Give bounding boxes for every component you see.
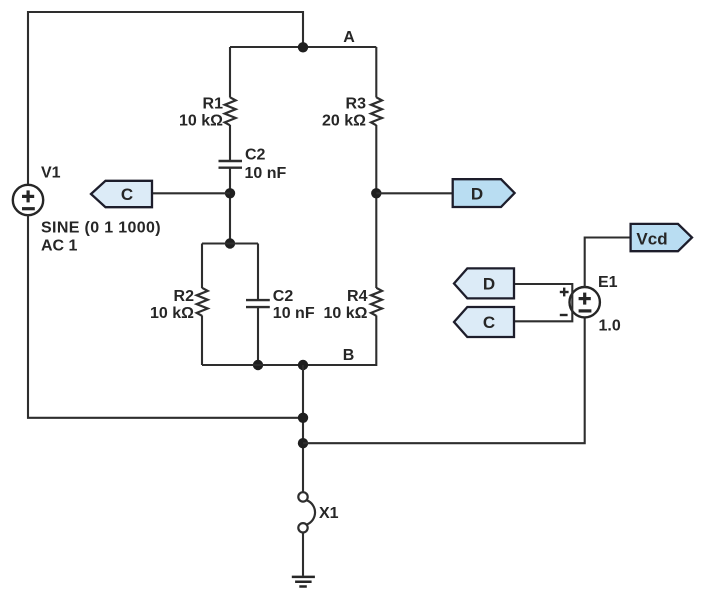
label V1 [41,165,61,182]
label R3 [346,96,367,113]
label E1 value 1.0 [599,318,621,335]
junction node C [225,188,235,198]
label E1 [598,274,618,291]
svg-text:C2: C2 [245,147,266,164]
svg-text:B: B [343,347,355,364]
wire C2 to node C and down [229,168,231,244]
wire switch to ground [302,533,304,576]
label R4 value 10 kOhm [324,305,368,322]
capacitor C2 (parallel) [246,300,270,307]
resistor R2 [197,288,208,316]
dependent source E1 [570,287,600,317]
svg-text:E1: E1 [598,274,618,291]
label V1 value SINE (0 1 1000) [41,220,161,237]
label C2 value 10 nF (parallel) [273,305,315,322]
wire R4 to node B [303,316,376,366]
svg-text:R1: R1 [203,96,224,113]
svg-text:10 nF: 10 nF [273,305,315,322]
junction E1 return [298,438,308,448]
wire node A bar to R3 [375,47,377,98]
svg-text:X1: X1 [319,505,339,522]
ground [292,577,315,587]
label C2 (parallel) [273,288,294,305]
svg-text:D: D [483,275,495,294]
svg-text:D: D [471,184,483,203]
svg-text:AC 1: AC 1 [41,238,78,255]
E1 control minus pin mark [560,314,568,316]
svg-text:10 nF: 10 nF [245,165,287,182]
wire top bar to parallel C2 [257,244,259,300]
label R1 value 10 kOhm [179,113,223,130]
wire E1 top to flag Vcd [585,238,631,288]
svg-text:20 kΩ: 20 kΩ [322,113,366,130]
wire V1 bottom to node B column [28,215,303,418]
svg-text:V1: V1 [41,165,61,182]
port flag C (E1 control) [454,307,514,337]
svg-text:Vcd: Vcd [636,230,667,249]
node B label [343,347,355,364]
svg-text:1.0: 1.0 [599,318,621,335]
wire R1 to C2 [229,125,231,160]
wire flag D to E1 plus control [514,284,572,321]
svg-text:A: A [343,29,355,46]
svg-text:R2: R2 [174,288,195,305]
junction V1 return [298,413,308,423]
svg-text:10 kΩ: 10 kΩ [150,305,194,322]
resistor R1 [225,97,236,125]
junction node top of parallel RC [225,238,235,248]
net flag D [453,179,515,207]
svg-text:C2: C2 [273,288,294,305]
label R2 value 10 kOhm [150,305,194,322]
wire node A to R1 [229,47,231,98]
label R4 [347,288,368,305]
svg-text:R3: R3 [346,96,367,113]
wire R3 to R4 through node D [375,125,377,288]
E1 control plus pin mark [560,288,569,297]
node A label [343,29,355,46]
junction node A [298,42,308,52]
wire node B down to switch [302,365,304,492]
label V1 value AC 1 [41,238,78,255]
svg-text:10 kΩ: 10 kΩ [179,113,223,130]
junction node B [298,360,308,370]
wire parallel RC bottom bar to node B [202,364,303,366]
wire node C to flag C [152,192,230,194]
wire E1 bottom to node B column [303,317,585,443]
svg-text:R4: R4 [347,288,368,305]
wire parallel RC top bar [202,242,258,244]
capacitor C2 (series) [219,161,243,168]
junction node D [371,188,381,198]
wire node D to flag D [376,192,452,194]
switch X1 [298,492,315,532]
wire R2 to bottom bar [201,316,203,366]
svg-text:C: C [121,185,133,204]
label X1 [319,505,339,522]
label C2 [245,147,266,164]
svg-text:10 kΩ: 10 kΩ [324,305,368,322]
svg-text:SINE (0 1 1000): SINE (0 1 1000) [41,220,161,237]
net flag Vcd [631,224,692,251]
label R1 [203,96,224,113]
label C2 value 10 nF [245,165,287,182]
wire top bar node A [230,46,376,48]
wire top bar to R2 [201,244,203,289]
label R2 [174,288,195,305]
wire V1 top to node A [28,12,303,185]
port flag D (E1 control) [454,268,514,298]
wire parallel C2 to bottom bar [257,307,259,365]
resistor R3 [371,97,382,125]
svg-text:C: C [483,313,495,332]
label R3 value 20 kOhm [322,113,366,130]
resistor R4 [371,288,382,316]
net flag C [91,181,152,207]
voltage source V1 [13,185,43,215]
junction parallel C2 bottom [253,360,263,370]
